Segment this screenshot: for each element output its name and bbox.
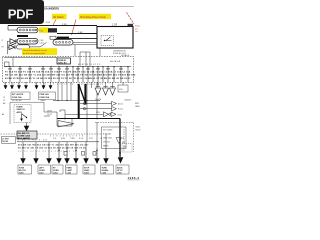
module bus wire <box>4 66 131 68</box>
arrow A5 <box>35 86 38 90</box>
dashed separator left <box>1 133 102 135</box>
splice bold bar <box>78 84 80 119</box>
svg-text:A8: A8 <box>3 102 5 105</box>
svg-text:S 3 S 4 S 5 S 6 S 7 S: S 3 S 4 S 5 S 6 S 7 S <box>50 136 84 138</box>
svg-text:BACK: BACK <box>117 166 123 169</box>
svg-text:459: 459 <box>122 142 125 144</box>
arrow A4 <box>24 86 27 90</box>
lower bus wire <box>53 100 100 102</box>
svg-text:C251: C251 <box>39 172 44 174</box>
svg-text:G305: G305 <box>136 127 140 129</box>
svg-text:8 OG: 8 OG <box>79 138 84 140</box>
data link arrow TP2 <box>80 107 117 111</box>
TP labels <box>124 99 140 108</box>
svg-text:29 GY: 29 GY <box>47 114 53 116</box>
wire: relay drop <box>80 48 100 67</box>
wire: third horizontal <box>53 38 97 40</box>
switch arm <box>22 114 27 119</box>
wire: C103 to relay box <box>73 42 97 44</box>
highlight label L3 <box>22 48 57 55</box>
svg-text:A6: A6 <box>2 113 4 116</box>
svg-text:7 WH: 7 WH <box>70 138 75 140</box>
small dashed box SB2 <box>122 144 132 153</box>
fuse terminal circles <box>8 68 122 69</box>
ground G3 hollow <box>110 87 116 96</box>
connector C102 small pill <box>17 45 30 49</box>
svg-text:CLASS 2: CLASS 2 <box>124 99 131 102</box>
svg-text:S100: S100 <box>46 22 50 24</box>
arrow A3 <box>17 86 20 90</box>
svg-text:4A 5A 6A: 4A 5A 6A <box>110 60 121 63</box>
svg-text:28 BK: 28 BK <box>47 110 53 112</box>
connector C100 pill <box>17 27 38 33</box>
arrow A1 <box>4 86 7 90</box>
inline connector CB2 <box>82 152 85 156</box>
svg-text:PDF: PDF <box>8 7 34 22</box>
svg-text:FUSE 10A: FUSE 10A <box>12 96 22 99</box>
hook wires <box>57 110 65 119</box>
svg-text:pwr: pwr <box>135 27 138 30</box>
arrow below switch <box>24 123 29 131</box>
splice bar S1 <box>17 35 28 37</box>
module small box <box>5 62 10 67</box>
right box RB1 <box>102 127 127 152</box>
mid wire to buffer <box>65 113 103 115</box>
svg-text:JUNC BX: JUNC BX <box>58 63 67 65</box>
svg-text:10: 10 <box>100 138 102 140</box>
bottom feed wire <box>17 141 99 143</box>
svg-text:circ: circ <box>135 30 138 33</box>
center bold wire <box>57 118 120 120</box>
hollow arrow right <box>111 112 116 117</box>
svg-text:Ground distribution circuit: Ground distribution circuit <box>23 49 47 52</box>
svg-text:Horn Relay Power Circuit: Horn Relay Power Circuit <box>80 16 106 19</box>
arrow A2 <box>10 86 13 90</box>
arrow A6 <box>42 86 45 90</box>
dashed separator right <box>95 123 134 153</box>
svg-text:B1 B2 B3 C1 C2 C3: B1 B2 B3 C1 C2 C3 <box>78 64 100 66</box>
bold diagonal <box>79 84 86 103</box>
small component box BL1 <box>2 137 16 144</box>
bold vertical right <box>119 119 121 158</box>
svg-text:DOOR: DOOR <box>2 141 8 143</box>
svg-text:C256: C256 <box>117 172 122 174</box>
connector C101 pill <box>17 38 38 44</box>
leader arrow to L2 <box>72 20 77 36</box>
svg-text:LH KICK: LH KICK <box>103 141 111 143</box>
red leader top right <box>127 13 135 25</box>
inline connector CB3 <box>93 152 96 156</box>
svg-text:2 BK: 2 BK <box>78 32 83 34</box>
switch SW1 dashed <box>14 104 31 122</box>
svg-text:C252: C252 <box>53 172 58 174</box>
module dashed box M1 <box>3 57 134 83</box>
wire: top horizontal <box>8 25 97 27</box>
hollow big triangle <box>58 121 74 128</box>
junction dots bottom <box>58 150 97 151</box>
connector block CB0 <box>48 28 57 32</box>
svg-text:INT LIGHTS: INT LIGHTS <box>12 94 24 96</box>
splice bar S2 <box>57 37 69 39</box>
bottom destination boxes <box>18 165 129 174</box>
svg-text:6 BU: 6 BU <box>61 138 66 140</box>
svg-text:C201: C201 <box>40 43 44 45</box>
module inner top wire <box>4 58 57 67</box>
splice bold bar 2 <box>84 84 86 105</box>
svg-text:B DLC: B DLC <box>118 109 124 111</box>
svg-text:Relay: Relay <box>135 26 140 28</box>
highlight label L1 <box>52 14 67 19</box>
ground G2 hollow <box>103 87 109 96</box>
data link arrow TP1 <box>80 101 117 105</box>
svg-text:9 10 11 12: 9 10 11 12 <box>53 84 74 86</box>
bottom arrows <box>21 148 123 163</box>
arrow A7 <box>49 86 52 90</box>
svg-text:for the horn ground path: for the horn ground path <box>23 52 46 55</box>
highlight label L2 <box>79 14 111 19</box>
connector mark <box>128 24 134 27</box>
svg-text:PARK: PARK <box>67 166 73 169</box>
dark text box DT1 <box>17 131 37 140</box>
relay box U1 <box>97 27 133 49</box>
title rule <box>44 5 134 7</box>
svg-text:C1: C1 <box>3 97 5 99</box>
svg-text:1986-3: 1986-3 <box>128 176 140 180</box>
destination box D2 <box>39 92 56 100</box>
svg-text:FUSE 20A: FUSE 20A <box>40 96 50 99</box>
leader arrow to L1 <box>53 20 57 27</box>
wire: second horizontal <box>57 33 97 35</box>
svg-text:C1 C2 C3 C4 C5 C6 C7: C1 C2 C3 C4 C5 C6 C7 <box>77 84 103 86</box>
SW1 output wires <box>44 112 57 116</box>
highlight tag T1 <box>39 27 49 32</box>
fuse F1 box <box>50 36 56 39</box>
svg-text:PWR LKS: PWR LKS <box>40 94 50 96</box>
svg-text:G103 A: G103 A <box>95 98 102 101</box>
wire from C102 up right <box>30 43 47 47</box>
svg-text:SAUNDERS: SAUNDERS <box>44 6 59 10</box>
svg-text:F1 15A F2 20A F3 10A F4 15A F5: F1 15A F2 20A F3 10A F4 15A F5 25A F6 10… <box>5 70 131 73</box>
bottom column labels row0 <box>53 138 125 144</box>
connector C103 pill <box>53 40 73 45</box>
svg-text:1 OF: 1 OF <box>112 25 118 27</box>
switch box SW1 outer <box>10 102 44 124</box>
small box SB1 <box>118 85 128 92</box>
inline connector CB1 <box>64 152 67 156</box>
module label box <box>57 58 71 65</box>
svg-text:NOT USED: NOT USED <box>103 129 113 131</box>
PDF badge <box>0 0 44 24</box>
center drop wires <box>57 119 72 127</box>
svg-text:5 YL: 5 YL <box>53 138 57 140</box>
svg-text:LT FRT: LT FRT <box>2 138 9 140</box>
horn H1 symbol <box>10 39 16 46</box>
wire: horn leads <box>8 41 11 54</box>
svg-text:08 BK 05 RD 08 GN 05 YL 08 BU: 08 BK 05 RD 08 GN 05 YL 08 BU 05 WH 08 O… <box>5 78 132 80</box>
wire: drop to module <box>74 45 76 56</box>
left pin tags <box>3 97 5 105</box>
buffer symbol <box>104 112 109 117</box>
horn H2 symbol <box>9 45 15 50</box>
svg-text:A DLC: A DLC <box>118 103 124 106</box>
destination box D1 <box>11 92 30 100</box>
svg-text:S215: S215 <box>96 112 100 114</box>
svg-text:GND G302: GND G302 <box>103 137 112 139</box>
svg-text:C2 C2 C2 C2 C2 C2 C2 C2 C2 C2: C2 C2 C2 C2 C2 C2 C2 C2 C2 C2 <box>18 151 77 153</box>
svg-text:DATA: DATA <box>135 105 140 108</box>
svg-text:BODY: BODY <box>136 130 142 132</box>
svg-text:S214: S214 <box>118 114 122 116</box>
svg-text:C2: C2 <box>3 100 5 102</box>
wire: lead into C100 <box>8 26 17 31</box>
svg-text:TIMES: TIMES <box>40 100 46 102</box>
svg-text:RD 451 BK 452 GN 453 YL 454 BU: RD 451 BK 452 GN 453 YL 454 BU 455 WH 45… <box>5 74 136 77</box>
svg-text:12: 12 <box>122 138 124 140</box>
red note text <box>135 26 140 34</box>
svg-text:HOT AT ALL: HOT AT ALL <box>12 99 22 102</box>
svg-text:C255: C255 <box>102 172 107 174</box>
svg-text:1 RD: 1 RD <box>62 24 67 26</box>
svg-text:G30: G30 <box>123 147 126 149</box>
svg-text:B PILLAR: B PILLAR <box>103 132 112 135</box>
svg-text:450 BK 451 RD 452 GN 453 YL 45: 450 BK 451 RD 452 GN 453 YL 454 BU 455 W… <box>18 143 89 146</box>
svg-text:G10: G10 <box>119 89 123 91</box>
svg-text:C250: C250 <box>19 172 24 174</box>
wires below module <box>6 82 124 119</box>
svg-text:Clk Switch: Clk Switch <box>53 16 64 19</box>
svg-text:C253: C253 <box>67 172 72 174</box>
fuse array <box>10 67 128 82</box>
svg-text:1 BK 2 RD 3 GN: 1 BK 2 RD 3 GN <box>18 139 48 141</box>
ground G1 hollow <box>95 82 101 95</box>
